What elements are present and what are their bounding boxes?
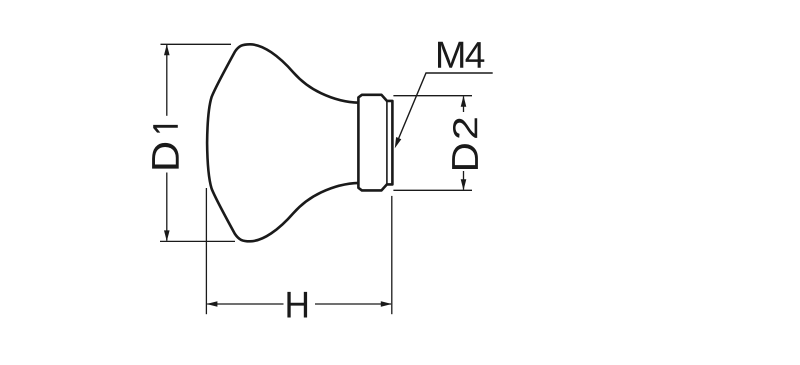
D2 dimension line lower segment <box>463 171 465 190</box>
D1 top extension line <box>161 43 232 45</box>
label text H <box>287 292 307 318</box>
D2 bottom arrowhead <box>461 179 467 190</box>
H dimension line right segment <box>315 303 391 305</box>
label text 2 (of D2) <box>453 118 477 138</box>
H right extension line <box>391 196 393 314</box>
D1 bottom extension line <box>160 240 235 242</box>
collar (flange) outline <box>358 95 392 191</box>
D2 top arrowhead <box>461 96 467 107</box>
knob body outline (dome and neck profile) <box>207 44 359 241</box>
label text D (of D1) <box>152 143 179 169</box>
H left extension line <box>205 188 207 314</box>
D1 top arrowhead <box>164 44 170 55</box>
M4 leader arrowhead <box>395 137 402 148</box>
D2 dimension line upper segment <box>463 96 465 112</box>
D2 bottom extension line <box>393 189 472 191</box>
D1 dimension line lower segment <box>166 173 168 241</box>
D1 dimension line upper segment <box>166 45 168 116</box>
label text 4 (of M4) <box>466 42 485 68</box>
H dimension line left segment <box>207 303 283 305</box>
collar face edge line <box>386 102 388 184</box>
D2 top extension line <box>393 95 472 97</box>
M4 leader line <box>397 73 493 144</box>
label text D (of D2) <box>452 144 478 169</box>
label text M (of M4) <box>438 42 463 68</box>
D1 bottom arrowhead <box>164 230 170 241</box>
H right arrowhead <box>381 301 392 307</box>
H left arrowhead <box>206 301 217 307</box>
label text 1 (of D1) <box>153 125 178 133</box>
